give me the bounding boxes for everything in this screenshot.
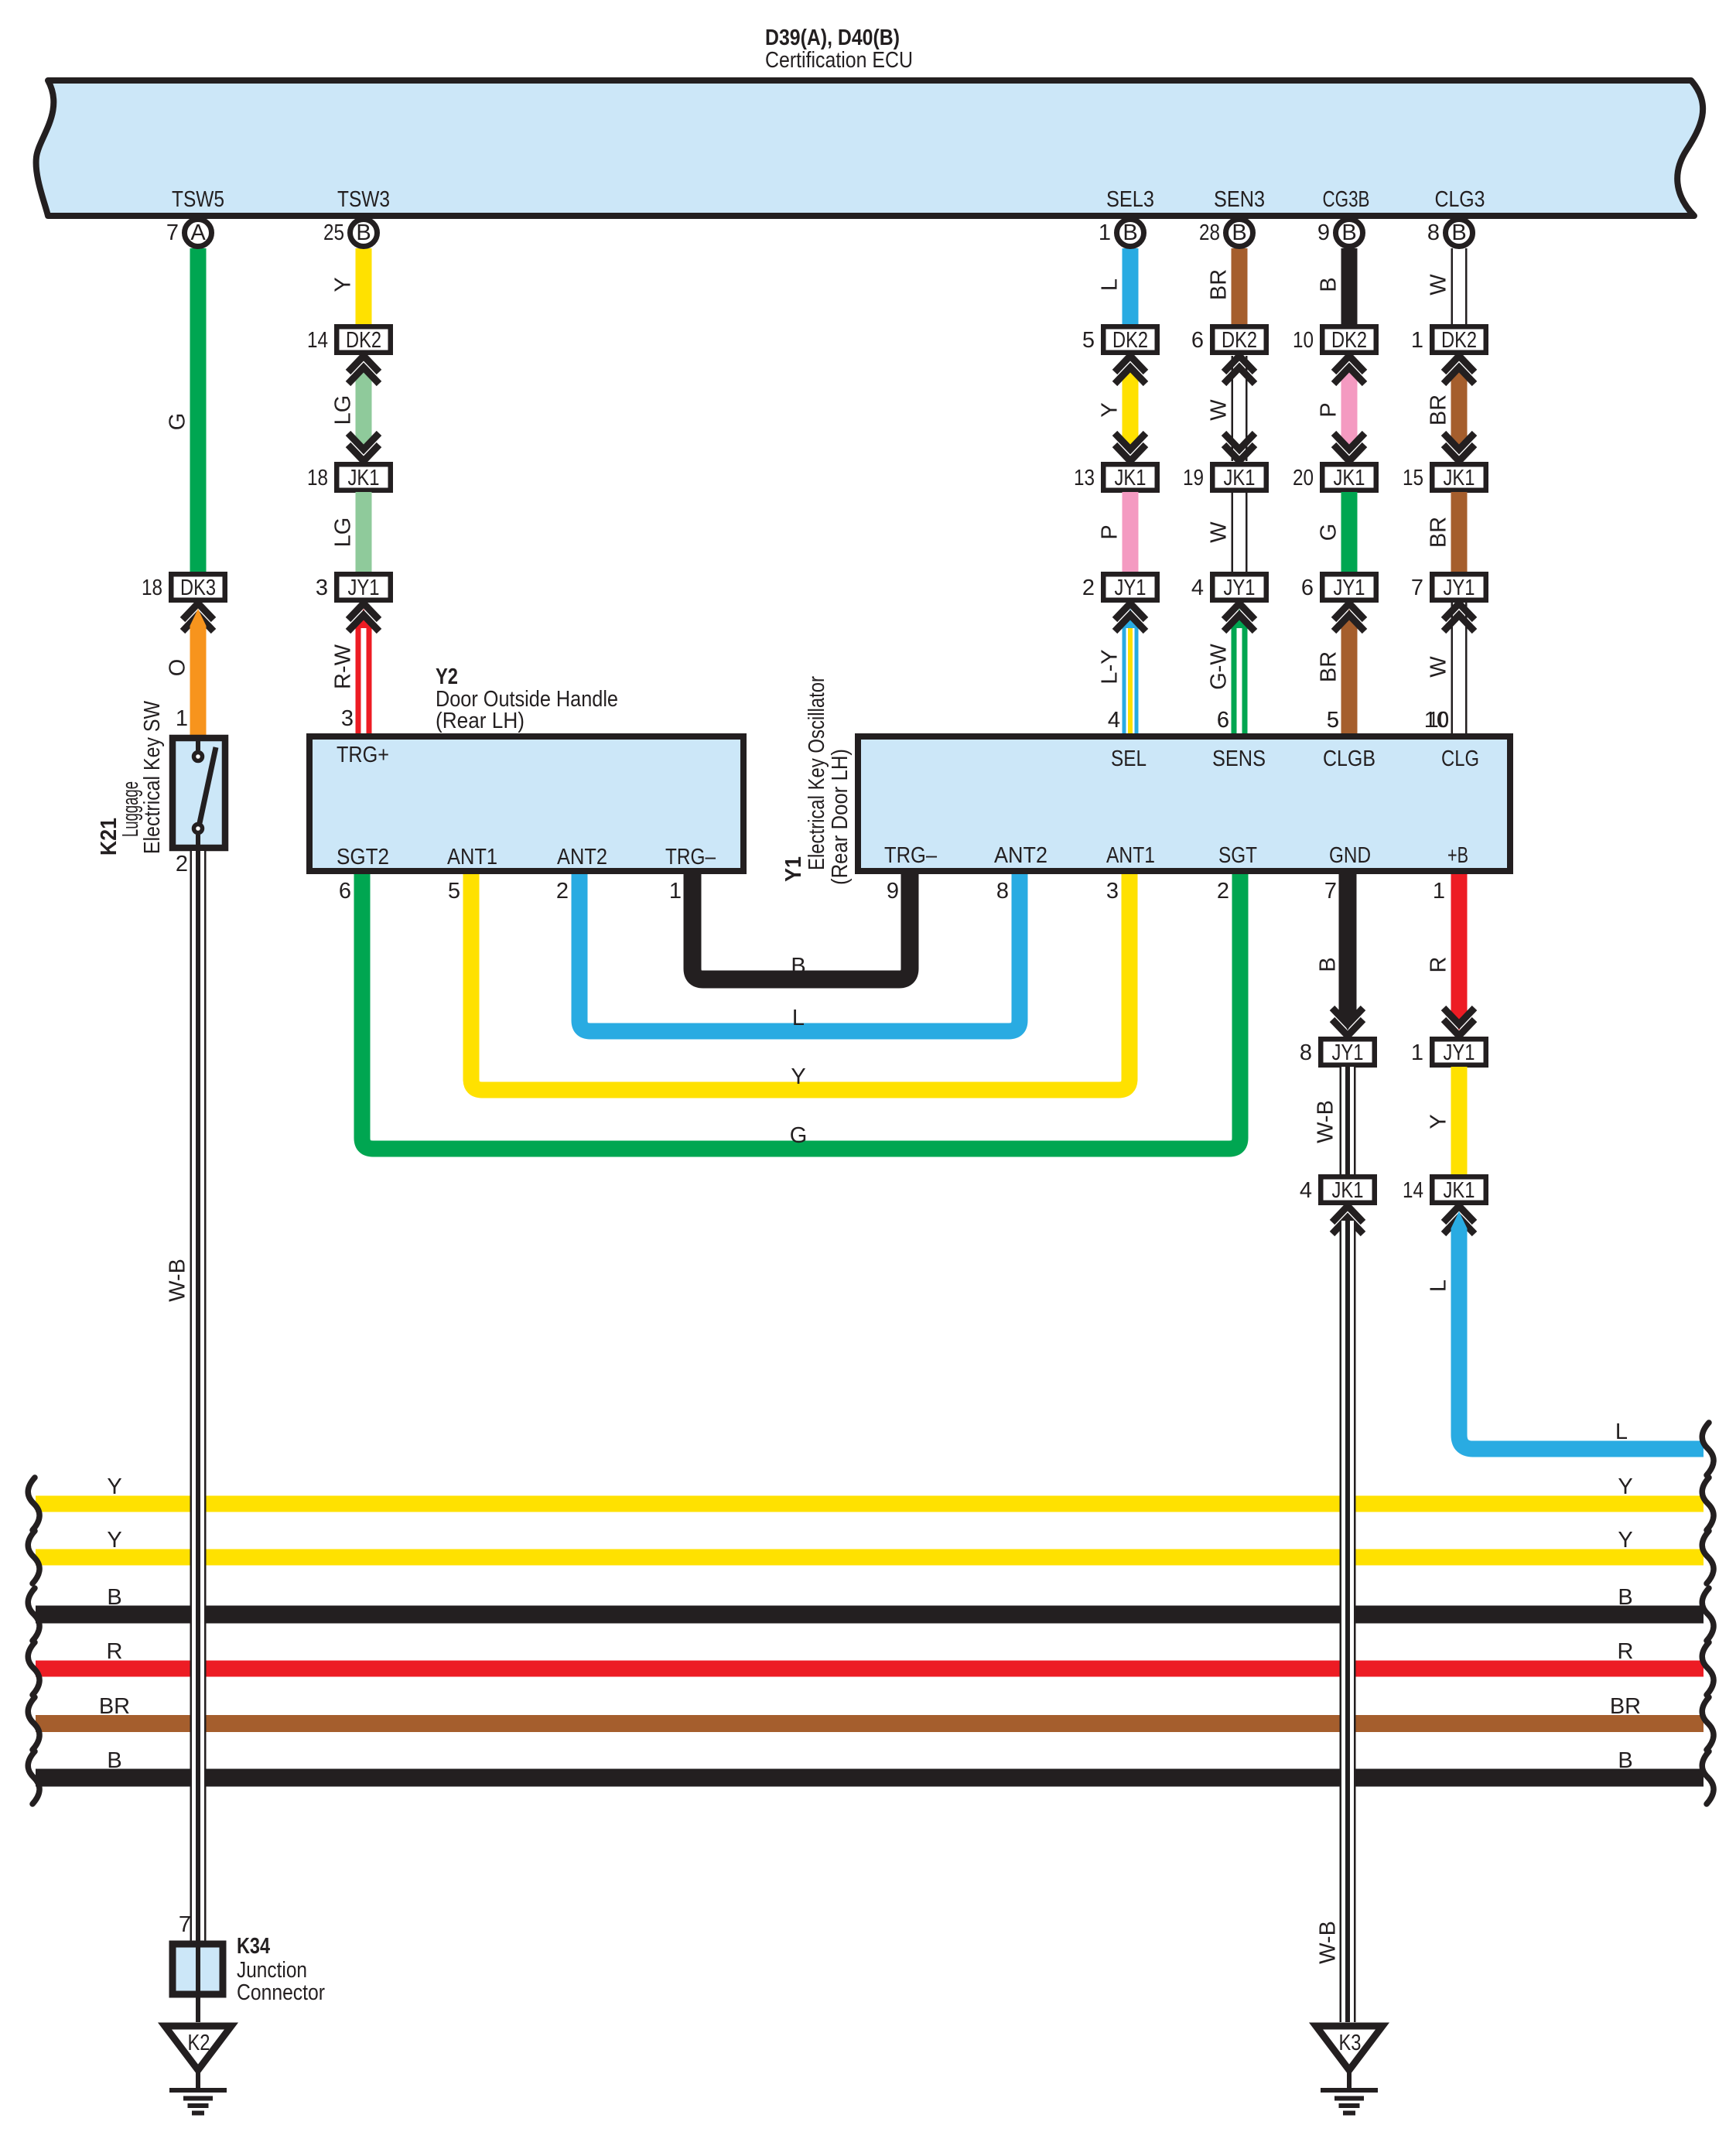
svg-text:2: 2: [176, 852, 188, 876]
svg-text:1: 1: [1433, 879, 1445, 904]
svg-text:JK1: JK1: [1224, 466, 1256, 490]
svg-text:BR: BR: [1317, 651, 1341, 682]
svg-text:CLGB: CLGB: [1323, 747, 1375, 771]
svg-text:18: 18: [307, 466, 328, 490]
svg-text:4: 4: [1108, 708, 1120, 733]
svg-text:SGT2: SGT2: [337, 845, 389, 870]
svg-text:4: 4: [1191, 576, 1204, 600]
svg-text:Y: Y: [1427, 1114, 1451, 1129]
svg-text:P: P: [1317, 402, 1341, 417]
svg-text:6: 6: [1217, 708, 1229, 733]
svg-text:R: R: [107, 1639, 123, 1664]
svg-text:4: 4: [1300, 1178, 1312, 1203]
svg-text:19: 19: [1183, 466, 1204, 490]
svg-text:7: 7: [166, 220, 179, 245]
svg-text:BR: BR: [1427, 395, 1451, 425]
svg-text:DK2: DK2: [1222, 328, 1257, 353]
svg-text:9: 9: [887, 879, 899, 904]
svg-text:W-B: W-B: [1314, 1100, 1338, 1143]
svg-text:8: 8: [1300, 1040, 1312, 1065]
svg-text:TRG+: TRG+: [337, 743, 389, 767]
svg-text:B: B: [1316, 957, 1341, 972]
svg-text:BR: BR: [99, 1694, 130, 1719]
svg-text:15: 15: [1403, 466, 1423, 490]
svg-text:L: L: [792, 1006, 805, 1030]
svg-text:DK2: DK2: [1331, 328, 1367, 353]
svg-text:W: W: [1207, 521, 1232, 543]
svg-text:TSW3: TSW3: [337, 187, 390, 212]
svg-text:18: 18: [142, 576, 162, 600]
svg-text:B: B: [1618, 1585, 1632, 1610]
svg-text:R: R: [1618, 1639, 1634, 1664]
svg-text:B: B: [1618, 1748, 1632, 1773]
svg-text:R-W: R-W: [331, 644, 356, 689]
svg-text:Electrical Key SW: Electrical Key SW: [140, 700, 165, 854]
svg-text:W: W: [1427, 274, 1451, 296]
svg-text:10: 10: [1428, 708, 1449, 733]
svg-text:B: B: [1451, 220, 1466, 245]
svg-text:Y: Y: [107, 1474, 121, 1499]
svg-text:JK1: JK1: [1444, 466, 1475, 490]
svg-text:8: 8: [996, 879, 1009, 904]
svg-text:BR: BR: [1207, 269, 1232, 300]
svg-text:3: 3: [341, 706, 354, 731]
svg-text:28: 28: [1199, 220, 1220, 245]
svg-text:Y2: Y2: [436, 665, 458, 689]
svg-text:K34: K34: [237, 1934, 270, 1959]
svg-text:JK1: JK1: [1444, 1178, 1475, 1203]
svg-text:LG: LG: [331, 395, 356, 425]
svg-text:Junction: Junction: [237, 1958, 307, 1983]
svg-text:SEL: SEL: [1111, 747, 1147, 771]
svg-text:L: L: [1098, 278, 1123, 291]
svg-text:B: B: [791, 954, 805, 979]
svg-text:G: G: [1317, 524, 1341, 542]
svg-text:SGT: SGT: [1218, 843, 1257, 868]
svg-text:Connector: Connector: [237, 1980, 325, 2005]
svg-text:1: 1: [1099, 220, 1111, 245]
svg-text:K2: K2: [188, 2031, 210, 2055]
svg-text:7: 7: [1324, 879, 1337, 904]
svg-text:JY1: JY1: [348, 576, 380, 600]
svg-text:1: 1: [669, 879, 682, 904]
svg-text:R: R: [1427, 957, 1451, 973]
svg-text:W: W: [1427, 656, 1451, 678]
svg-text:B: B: [107, 1585, 121, 1610]
svg-text:G-W: G-W: [1207, 644, 1232, 690]
svg-text:TSW5: TSW5: [172, 187, 224, 212]
svg-text:ANT2: ANT2: [557, 845, 607, 870]
svg-text:SEL3: SEL3: [1106, 187, 1154, 212]
svg-text:B: B: [356, 220, 371, 245]
svg-text:G: G: [790, 1123, 808, 1148]
svg-text:LG: LG: [331, 518, 356, 548]
svg-text:CG3B: CG3B: [1323, 187, 1370, 212]
svg-text:K3: K3: [1339, 2031, 1362, 2055]
svg-text:W-B: W-B: [166, 1259, 190, 1302]
svg-text:JK1: JK1: [1334, 466, 1365, 490]
svg-text:JK1: JK1: [1332, 1178, 1364, 1203]
svg-text:ANT2: ANT2: [994, 843, 1047, 868]
svg-text:DK2: DK2: [1112, 328, 1148, 353]
svg-text:(Rear LH): (Rear LH): [436, 709, 525, 733]
svg-text:JY1: JY1: [1334, 576, 1365, 600]
svg-text:O: O: [166, 659, 190, 677]
svg-text:3: 3: [316, 576, 328, 600]
svg-text:2: 2: [1217, 879, 1229, 904]
svg-text:8: 8: [1427, 220, 1440, 245]
svg-text:A: A: [190, 220, 206, 245]
svg-text:(Rear Door LH): (Rear Door LH): [828, 749, 853, 885]
svg-text:1: 1: [1411, 1040, 1423, 1065]
svg-text:D39(A), D40(B): D39(A), D40(B): [765, 26, 900, 50]
svg-text:JY1: JY1: [1444, 1040, 1475, 1065]
svg-text:10: 10: [1293, 328, 1314, 353]
svg-text:L-Y: L-Y: [1098, 649, 1123, 684]
svg-text:7: 7: [179, 1912, 191, 1937]
svg-text:ANT1: ANT1: [447, 845, 497, 870]
svg-text:P: P: [1098, 524, 1123, 539]
svg-text:2: 2: [1082, 576, 1095, 600]
svg-text:3: 3: [1106, 879, 1119, 904]
svg-text:25: 25: [323, 220, 344, 245]
svg-text:20: 20: [1293, 466, 1314, 490]
svg-text:14: 14: [1403, 1178, 1423, 1203]
svg-text:L: L: [1427, 1279, 1451, 1292]
svg-text:JY1: JY1: [1115, 576, 1147, 600]
svg-text:Y: Y: [791, 1064, 805, 1089]
svg-text:CLG: CLG: [1441, 747, 1479, 771]
svg-text:6: 6: [1191, 328, 1204, 353]
svg-text:DK2: DK2: [346, 328, 381, 353]
svg-text:G: G: [166, 413, 190, 431]
svg-text:DK2: DK2: [1441, 328, 1477, 353]
svg-text:Y: Y: [107, 1528, 121, 1553]
svg-text:B: B: [1341, 220, 1356, 245]
svg-text:SEN3: SEN3: [1214, 187, 1265, 212]
svg-text:6: 6: [1301, 576, 1314, 600]
svg-text:Y: Y: [1098, 402, 1123, 417]
svg-text:B: B: [1232, 220, 1246, 245]
svg-text:9: 9: [1317, 220, 1330, 245]
svg-text:B: B: [107, 1748, 121, 1773]
svg-text:TRG–: TRG–: [884, 843, 938, 868]
svg-text:JY1: JY1: [1332, 1040, 1364, 1065]
svg-text:JY1: JY1: [1224, 576, 1256, 600]
svg-text:JK1: JK1: [348, 466, 380, 490]
svg-text:GND: GND: [1329, 843, 1371, 868]
svg-text:BR: BR: [1427, 517, 1451, 548]
svg-text:Y: Y: [1618, 1474, 1632, 1499]
svg-text:Certification ECU: Certification ECU: [765, 48, 913, 73]
svg-text:BR: BR: [1610, 1694, 1641, 1719]
svg-text:B: B: [1123, 220, 1137, 245]
svg-text:1: 1: [176, 706, 188, 731]
svg-text:6: 6: [339, 879, 351, 904]
svg-text:Y1: Y1: [781, 856, 806, 882]
svg-text:DK3: DK3: [180, 576, 216, 600]
svg-text:7: 7: [1411, 576, 1423, 600]
svg-text:JK1: JK1: [1115, 466, 1147, 490]
svg-text:5: 5: [1082, 328, 1095, 353]
svg-text:1: 1: [1411, 328, 1423, 353]
svg-text:5: 5: [1327, 708, 1339, 733]
svg-text:14: 14: [307, 328, 328, 353]
svg-text:2: 2: [556, 879, 569, 904]
svg-text:Y: Y: [1618, 1528, 1632, 1553]
svg-text:ANT1: ANT1: [1106, 843, 1155, 868]
svg-text:13: 13: [1074, 466, 1095, 490]
svg-text:Y: Y: [331, 277, 356, 292]
svg-text:Electrical Key Oscillator: Electrical Key Oscillator: [805, 676, 829, 870]
svg-text:+B: +B: [1447, 843, 1468, 868]
svg-text:L: L: [1615, 1420, 1628, 1444]
svg-text:JY1: JY1: [1444, 576, 1475, 600]
svg-text:B: B: [1317, 277, 1341, 292]
svg-text:W: W: [1207, 399, 1232, 421]
svg-text:TRG–: TRG–: [665, 845, 716, 870]
svg-text:CLG3: CLG3: [1435, 187, 1485, 212]
svg-text:SENS: SENS: [1212, 747, 1266, 771]
svg-text:W-B: W-B: [1316, 1921, 1341, 1964]
svg-text:5: 5: [448, 879, 460, 904]
